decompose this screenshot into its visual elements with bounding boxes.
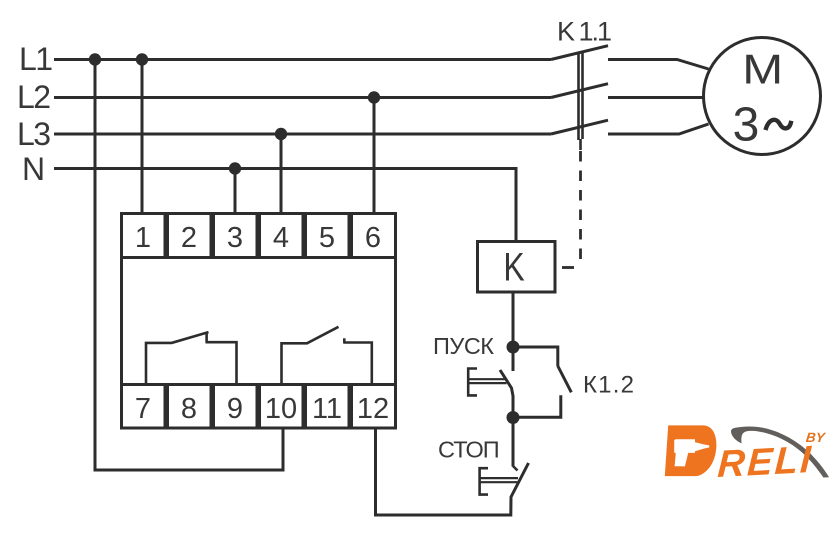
svg-text:ПУСК: ПУСК [433,333,494,359]
svg-text:2: 2 [181,222,197,254]
svg-text:K 1.1: K 1.1 [557,17,611,47]
svg-text:7: 7 [135,393,151,425]
svg-text:L1: L1 [19,41,52,77]
svg-text:3: 3 [227,222,243,254]
svg-text:10: 10 [265,393,297,425]
svg-text:N: N [22,151,45,187]
svg-text:6: 6 [365,222,381,254]
svg-text:12: 12 [357,393,389,425]
svg-text:BY: BY [805,430,827,445]
svg-text:9: 9 [227,393,243,425]
svg-text:К1.2: К1.2 [583,372,635,399]
svg-text:M: M [742,46,783,93]
svg-text:5: 5 [319,222,335,254]
svg-text:L2: L2 [17,79,50,115]
svg-text:8: 8 [181,393,197,425]
svg-text:L3: L3 [17,116,50,152]
svg-text:4: 4 [273,222,289,254]
svg-text:СТОП: СТОП [438,437,499,463]
svg-text:1: 1 [135,222,151,254]
svg-text:K: K [503,244,524,289]
svg-text:3: 3 [733,99,760,152]
svg-text:RELI: RELI [717,439,814,486]
svg-text:11: 11 [312,393,342,425]
